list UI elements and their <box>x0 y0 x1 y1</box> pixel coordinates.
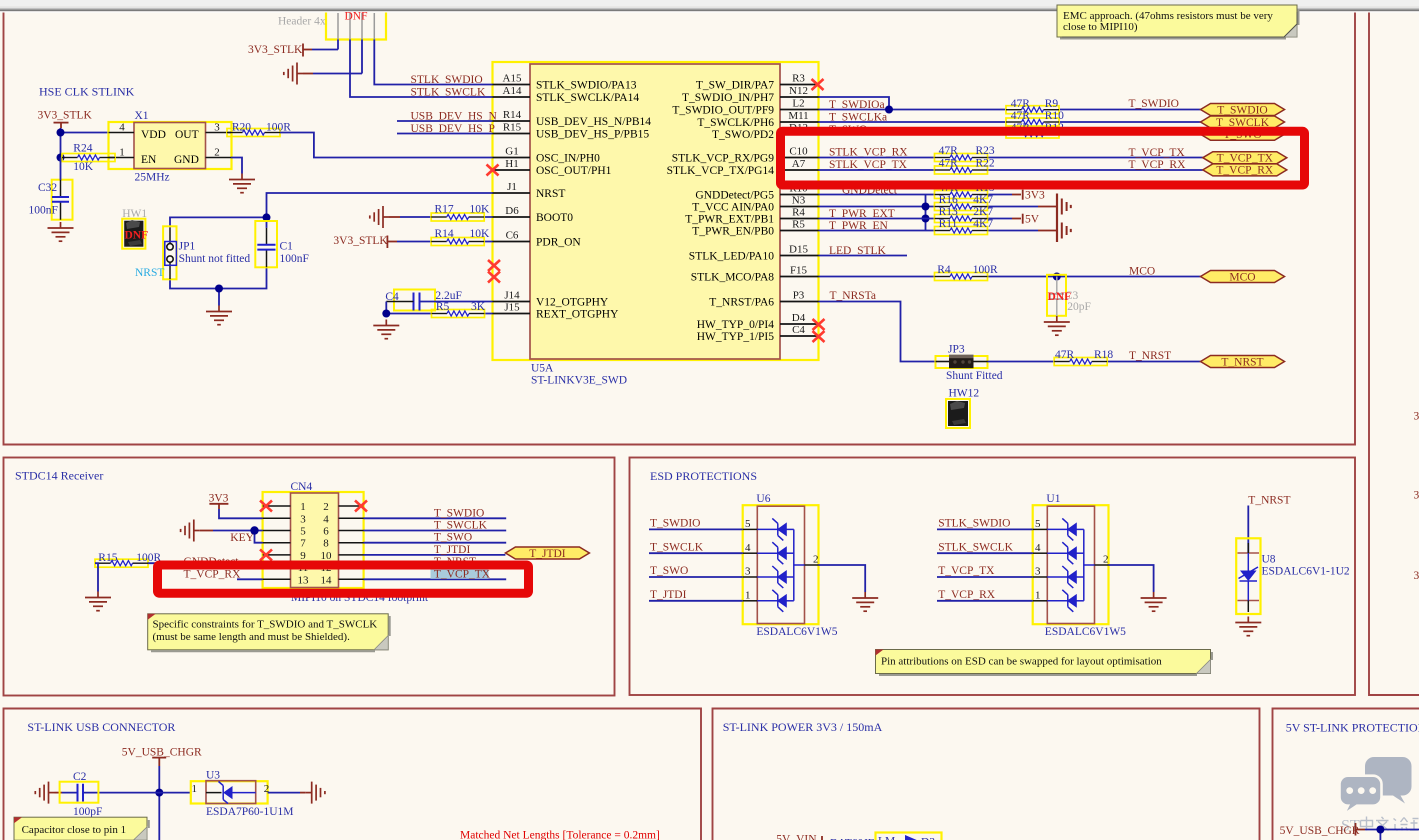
svg-text:R9: R9 <box>1045 98 1059 110</box>
wire T_VCC AIN (N3 to R16) <box>819 206 1039 208</box>
no-connect X CN4 pin9 <box>260 549 272 560</box>
pin D4 <box>780 323 819 325</box>
port T_NRST <box>1201 356 1285 369</box>
svg-text:F15: F15 <box>790 265 808 277</box>
junction (KEY) <box>250 526 258 534</box>
pin 1 (U6) <box>743 600 758 602</box>
svg-text:ESDA7P60-1U1M: ESDA7P60-1U1M <box>206 806 294 818</box>
svg-text:KEY: KEY <box>230 532 254 544</box>
wire T_VCP_TX (CN4 pin14) <box>364 578 507 580</box>
svg-text:T_SWDIO_OUT/PF9: T_SWDIO_OUT/PF9 <box>672 105 774 117</box>
wire T_JTDI (U6) <box>649 600 743 602</box>
svg-text:3: 3 <box>1414 411 1419 423</box>
svg-text:D6: D6 <box>505 205 519 217</box>
svg-text:3: 3 <box>300 513 306 525</box>
pin N3 <box>780 206 819 208</box>
svg-text:T_VCP_RX: T_VCP_RX <box>184 569 242 581</box>
port T_VCP_TX <box>1203 152 1287 165</box>
diode U3 ESDA7P60-1U1M <box>191 781 268 804</box>
ground (C3) <box>1044 316 1070 335</box>
svg-text:Capacitor close to pin 1: Capacitor close to pin 1 <box>22 824 126 836</box>
svg-text:R13: R13 <box>939 206 958 218</box>
svg-text:T_VCP_TX: T_VCP_TX <box>1217 153 1274 165</box>
svg-text:R3: R3 <box>792 73 805 85</box>
pin 13 (CN4) <box>263 578 291 580</box>
svg-text:STLK_SWDIO: STLK_SWDIO <box>938 518 1010 530</box>
wire gnd to header pin3 <box>303 73 313 75</box>
svg-text:R4: R4 <box>792 207 805 219</box>
pin 4 (CN4) <box>339 517 364 519</box>
ground (NRST) <box>206 306 232 325</box>
svg-text:NRST: NRST <box>135 267 164 279</box>
pin 14 (CN4) <box>339 578 364 580</box>
power port 3V3 (GNDDetect) <box>1023 190 1045 202</box>
pin R15 <box>493 133 531 135</box>
junction (3V3_STLK / VDD) <box>57 129 65 137</box>
svg-text:R5: R5 <box>792 219 805 231</box>
no-connect X CN4 pin1 <box>260 501 272 512</box>
svg-text:2K7: 2K7 <box>973 206 993 218</box>
svg-text:Shunt Fitted: Shunt Fitted <box>946 370 1003 382</box>
svg-text:STLK_VCP_RX/PG9: STLK_VCP_RX/PG9 <box>672 153 774 165</box>
pin 5 (U1) <box>1033 528 1048 530</box>
resistor R5 3K <box>432 301 486 317</box>
svg-text:JP1: JP1 <box>179 241 196 253</box>
svg-text:T_NRST: T_NRST <box>1129 350 1171 362</box>
jumper JP1 <box>163 226 250 279</box>
section border: main top sheet <box>4 13 1356 445</box>
junction (NRST bottom) <box>215 285 223 293</box>
resistor R23 47R <box>935 145 995 162</box>
wire NRST net (J1 to JP1/C1) <box>170 193 493 306</box>
svg-text:13: 13 <box>298 574 310 586</box>
svg-text:T_JTDI: T_JTDI <box>650 589 687 601</box>
svg-text:3: 3 <box>1035 566 1041 578</box>
wire T_SWDIOa (N12/L2 join to R9) <box>819 97 1201 110</box>
watermark forum logo <box>1340 757 1419 835</box>
svg-text:STLK_SWCLK: STLK_SWCLK <box>938 541 1013 553</box>
no-connect X on pin R3 <box>812 79 824 90</box>
svg-text:Specific constraints for T_SWD: Specific constraints for T_SWDIO and T_S… <box>153 618 378 630</box>
svg-text:U3: U3 <box>206 770 220 782</box>
wire U6 pin2 to ground <box>819 565 866 592</box>
svg-text:9: 9 <box>300 550 306 562</box>
pin 4 (U1) <box>1033 552 1048 554</box>
svg-text:GNDDetect/PG5: GNDDetect/PG5 <box>695 190 774 202</box>
svg-text:P3: P3 <box>793 290 805 302</box>
svg-text:CN4: CN4 <box>291 481 313 493</box>
svg-text:USB_DEV_HS_N/PB14: USB_DEV_HS_N/PB14 <box>536 116 651 128</box>
pin R5 <box>780 230 819 232</box>
wire T_NRST (JP3 to R18 to port) <box>988 361 1201 363</box>
pin M11 <box>780 121 819 123</box>
oscillator X1 25MHz <box>109 122 232 169</box>
svg-text:T_VCP_TX: T_VCP_TX <box>1129 147 1186 159</box>
junction (5V_USB_CHGR) <box>155 789 163 797</box>
svg-text:3K: 3K <box>471 301 486 313</box>
svg-text:4K7: 4K7 <box>973 194 993 206</box>
capacitor C4 2.2uF <box>385 290 462 311</box>
wire U1 pin2 to ground <box>1109 565 1154 592</box>
svg-text:STDC14 Receiver: STDC14 Receiver <box>15 469 103 483</box>
TVS diode U1-d <box>1047 590 1084 612</box>
pin 10 (CN4) <box>339 554 364 556</box>
svg-text:3: 3 <box>214 122 220 134</box>
svg-text:OUT: OUT <box>175 129 199 141</box>
svg-text:2: 2 <box>323 501 329 513</box>
pin 12 (CN4) <box>339 566 364 568</box>
pin 6 (CN4) <box>339 530 364 532</box>
svg-text:T_SWDIO: T_SWDIO <box>434 507 484 519</box>
wire USB_DEV_HS_P <box>397 133 493 135</box>
svg-text:T_SWCLK/PH6: T_SWCLK/PH6 <box>697 117 774 129</box>
pin A15 <box>493 84 531 86</box>
TVS diode U1-a <box>1047 518 1084 540</box>
svg-text:T_SWCLK: T_SWCLK <box>650 541 704 553</box>
resistor R11 4K7 <box>935 218 994 235</box>
ground (BOOT0) <box>370 206 389 228</box>
svg-text:HW1: HW1 <box>122 208 147 220</box>
svg-text:T_SWDIO: T_SWDIO <box>1129 98 1179 110</box>
ground (C4/R5) <box>373 320 399 339</box>
svg-text:4: 4 <box>323 513 329 525</box>
wire T_SWOa (D12 to R12) <box>819 133 1201 135</box>
svg-text:U1: U1 <box>1046 493 1060 505</box>
note Specific constraints <box>148 614 390 652</box>
no-connect X CN4 pin2 <box>355 501 367 512</box>
wire GNDDetect (R10 pin to R15 res) <box>819 194 1013 196</box>
resistor R16 4K7 <box>935 194 994 211</box>
svg-text:T_VCC AIN/PA0: T_VCC AIN/PA0 <box>692 202 774 214</box>
svg-text:T_SWDIO_IN/PH7: T_SWDIO_IN/PH7 <box>682 92 774 104</box>
svg-text:5V_USB_CHGR: 5V_USB_CHGR <box>1280 825 1360 837</box>
svg-text:T_PWR_EN/PB0: T_PWR_EN/PB0 <box>692 226 774 238</box>
svg-text:N12: N12 <box>789 85 808 97</box>
svg-text:ESDALC6V1W5: ESDALC6V1W5 <box>756 626 837 638</box>
highlight red box 1 (T_VCP swap) <box>781 131 1305 185</box>
wire T_NRSTa (P3 to JP3) <box>819 302 936 362</box>
junction (5V_USB_CHGR protection) <box>1376 826 1384 834</box>
svg-text:R22: R22 <box>976 157 995 169</box>
wire T_SWO (U6) <box>649 576 743 578</box>
wire T_SWCLK (CN4 pin6) <box>364 530 507 532</box>
svg-text:R23: R23 <box>976 145 995 157</box>
pin 2 (U1) <box>1095 564 1109 566</box>
TVS diode U6-b <box>757 542 794 564</box>
pin D6 <box>493 216 531 218</box>
svg-text:T_VCP_TX: T_VCP_TX <box>434 568 491 580</box>
power port 5V_VIN (partial) <box>776 834 822 840</box>
svg-text:1: 1 <box>1035 589 1041 601</box>
svg-text:47R: 47R <box>1055 349 1075 361</box>
svg-text:R24: R24 <box>73 142 92 154</box>
connector CN4 <box>263 492 364 588</box>
no-connect X on pin D4 <box>813 319 825 330</box>
svg-text:NRST: NRST <box>536 188 565 200</box>
svg-text:1: 1 <box>119 147 125 159</box>
svg-text:47R: 47R <box>939 145 959 157</box>
junction (N3 row) <box>922 203 930 211</box>
svg-text:N3: N3 <box>792 195 806 207</box>
svg-text:U8: U8 <box>1262 553 1276 565</box>
wire C2 row <box>55 792 63 794</box>
net label T_VCP_TX selected (CN4) <box>431 566 491 581</box>
diode U8 ESDALC6V1-1U2 <box>1236 538 1260 614</box>
svg-text:T_SW_DIR/PA7: T_SW_DIR/PA7 <box>696 80 774 92</box>
svg-text:5: 5 <box>1035 518 1041 530</box>
pin 3 (CN4) <box>263 517 291 519</box>
svg-text:ST-LINK USB CONNECTOR: ST-LINK USB CONNECTOR <box>27 720 175 734</box>
svg-text:3: 3 <box>1414 490 1419 502</box>
power port 3V3 (CN4) <box>209 493 229 509</box>
wire 5V_USB_CHGR (protection) <box>1365 830 1419 840</box>
capacitor C32 100nF <box>29 158 73 220</box>
svg-text:R15: R15 <box>98 552 117 564</box>
ground (U8) <box>1235 617 1261 636</box>
svg-text:T_VCP_TX: T_VCP_TX <box>938 565 995 577</box>
svg-text:3: 3 <box>745 566 751 578</box>
wire T_SWDIO (CN4 pin4) <box>364 517 507 519</box>
ground (C2 left) <box>35 782 54 804</box>
svg-text:T_SWDIO: T_SWDIO <box>1217 104 1267 116</box>
resistor R4 100R (MCO) <box>935 264 998 281</box>
resistor R22 47R <box>935 157 995 174</box>
pin 5 (U6) <box>743 528 758 530</box>
svg-text:J14: J14 <box>504 290 520 302</box>
svg-text:MCO: MCO <box>1229 272 1255 284</box>
svg-text:OSC_IN/PH0: OSC_IN/PH0 <box>536 153 600 165</box>
svg-text:OSC_OUT/PH1: OSC_OUT/PH1 <box>536 165 612 177</box>
svg-text:J1: J1 <box>507 181 517 193</box>
svg-text:R5: R5 <box>436 301 450 313</box>
pin L2 <box>780 109 819 111</box>
resistor R14 10K <box>431 228 490 246</box>
svg-text:14: 14 <box>321 574 333 586</box>
svg-text:A14: A14 <box>503 85 522 97</box>
svg-text:T_SWO: T_SWO <box>650 565 688 577</box>
pin N12 <box>780 96 819 98</box>
wire STLK_SWCLK (U1) <box>937 552 1033 554</box>
svg-text:4: 4 <box>1035 542 1041 554</box>
svg-text:C6: C6 <box>506 230 519 242</box>
resistor R15 47R (GNDDetect) <box>935 182 995 199</box>
resistor R24 10K <box>62 142 115 173</box>
no-connect X left row a <box>488 260 500 271</box>
resistor R20 100R <box>227 122 291 137</box>
svg-text:T_SWDIO: T_SWDIO <box>650 518 700 530</box>
svg-text:DNF: DNF <box>125 230 149 242</box>
ground (R15) <box>85 592 111 611</box>
svg-text:Header 4x: Header 4x <box>278 16 326 28</box>
pin G1 <box>493 157 531 159</box>
svg-text:PDR_ON: PDR_ON <box>536 237 581 249</box>
resistor R10 47R <box>1006 110 1064 126</box>
wire T_VCP_RX (U1) <box>937 600 1033 602</box>
resistor R18 47R <box>1054 349 1113 366</box>
svg-text:T_NRST/PA6: T_NRST/PA6 <box>709 297 774 309</box>
svg-text:BOOT0: BOOT0 <box>536 212 573 224</box>
wire resistor commoning vertical <box>925 195 927 231</box>
svg-text:J15: J15 <box>504 302 520 314</box>
pin 1 (U1) <box>1033 600 1048 602</box>
diode array U6 ESDALC6V1W5 <box>743 505 819 624</box>
svg-text:T_VCP_RX: T_VCP_RX <box>1129 159 1187 171</box>
svg-text:T_NRST: T_NRST <box>1221 357 1263 369</box>
svg-text:V12_OTGPHY: V12_OTGPHY <box>536 297 609 309</box>
port T_SWCLK <box>1201 116 1285 129</box>
capacitor C2 100pF <box>60 771 103 818</box>
pin D15 <box>780 255 819 257</box>
TVS diode U6-c <box>757 566 794 588</box>
svg-text:X1: X1 <box>135 110 149 122</box>
TVS diode U6-a <box>757 518 794 540</box>
ground (CN4 GND/KEY) <box>181 520 200 542</box>
svg-text:R10: R10 <box>1045 110 1064 122</box>
wire T_SWCLKa (M11 to R10) <box>819 121 1201 123</box>
svg-text:ESD PROTECTIONS: ESD PROTECTIONS <box>650 469 757 483</box>
ground (X1) <box>229 174 255 193</box>
ground (U3 right) <box>306 782 325 804</box>
svg-text:5: 5 <box>745 518 751 530</box>
wire STLK_SWDIO <box>374 40 492 85</box>
pin R4 <box>780 218 819 220</box>
pin 1 (CN4) <box>263 505 291 507</box>
pin A7 <box>780 169 819 171</box>
capacitor C1 100nF <box>255 221 309 267</box>
wire C4 to V12_OTGPHY <box>386 301 413 303</box>
svg-text:DNF: DNF <box>1048 291 1072 303</box>
resistor R9 47R <box>1006 98 1059 114</box>
pin 9 (CN4) <box>263 554 291 556</box>
svg-text:R20: R20 <box>232 122 251 134</box>
svg-text:C4: C4 <box>792 324 805 336</box>
port T_JTDI <box>505 547 589 560</box>
svg-text:100R: 100R <box>973 264 998 276</box>
svg-text:STLK_VCP_TX/PG14: STLK_VCP_TX/PG14 <box>667 165 775 177</box>
svg-text:L2: L2 <box>792 98 804 110</box>
resistor R12 47R <box>1006 122 1064 138</box>
port MCO <box>1201 271 1285 284</box>
wire T_VCP_TX (U1) <box>937 576 1033 578</box>
svg-text:(must be same length and must: (must be same length and must be Shielde… <box>153 631 351 643</box>
wire T_SWO (CN4 pin8) <box>364 542 507 544</box>
svg-text:4: 4 <box>119 122 125 134</box>
svg-text:T_NRSTa: T_NRSTa <box>830 290 876 302</box>
wire PDR_ON <box>397 241 493 243</box>
pin J14 <box>493 301 531 303</box>
pin R3 <box>780 84 819 86</box>
svg-text:T_VCP_RX: T_VCP_RX <box>938 589 996 601</box>
svg-text:R17: R17 <box>435 203 454 215</box>
pin J1 <box>493 192 531 194</box>
port T_SWO <box>1201 128 1285 141</box>
pin H1 <box>493 169 531 171</box>
svg-text:1: 1 <box>745 589 751 601</box>
pin D12 <box>780 133 819 135</box>
svg-text:R18: R18 <box>1094 349 1113 361</box>
junction (C4/R5) <box>382 310 390 318</box>
svg-text:MCO: MCO <box>1129 266 1155 278</box>
wire T_VCP_RX to CN4 pin13 <box>237 578 263 580</box>
svg-text:GND: GND <box>174 154 199 166</box>
TVS diode U1-c <box>1047 566 1084 588</box>
svg-text:5: 5 <box>300 526 306 538</box>
pin C10 <box>780 157 819 159</box>
svg-text:ESDALC6V1-1U2: ESDALC6V1-1U2 <box>1262 566 1350 578</box>
svg-text:USB_DEV_HS_P/PB15: USB_DEV_HS_P/PB15 <box>536 129 649 141</box>
wire OUT to OSC_IN <box>280 133 493 158</box>
wire USB_DEV_HS_N <box>397 120 493 122</box>
svg-text:H1: H1 <box>505 158 518 170</box>
note Capacitor close to pin 1 <box>14 817 149 840</box>
wire LED_STLK <box>819 255 908 257</box>
TVS diode U6-d <box>757 590 794 612</box>
pin R14 <box>493 120 531 122</box>
svg-text:1: 1 <box>192 783 198 795</box>
svg-text:47R: 47R <box>1011 110 1030 122</box>
wire T_PWR_EXT (R4 to R13) <box>819 218 1013 220</box>
svg-text:U5A: U5A <box>531 363 554 375</box>
svg-text:ST-LINKV3E_SWD: ST-LINKV3E_SWD <box>531 375 627 387</box>
wire X1 GND <box>231 158 242 174</box>
pin C6 <box>493 241 531 243</box>
svg-text:C10: C10 <box>789 146 808 158</box>
svg-text:10: 10 <box>321 550 333 562</box>
svg-text:T_JTDI: T_JTDI <box>434 544 471 556</box>
no-connect X on pin H1 <box>487 165 499 176</box>
svg-text:Shunt not fitted: Shunt not fitted <box>179 253 251 265</box>
section border: ST-LINK POWER <box>713 709 1260 840</box>
wire 3V3_STLK to header pin1 <box>312 40 338 50</box>
wire T_SWCLK (U6) <box>649 552 743 554</box>
svg-text:Pin attributions on ESD can be: Pin attributions on ESD can be swapped f… <box>881 656 1162 668</box>
svg-text:DNF: DNF <box>345 11 368 23</box>
wire 3V3_STLK rail to X1 VDD <box>61 128 109 158</box>
svg-text:R14: R14 <box>435 228 454 240</box>
svg-text:5V_USB_CHGR: 5V_USB_CHGR <box>122 746 202 758</box>
note EMC approach <box>1057 5 1299 39</box>
wire STLK_VCP_RX (C10 to R23 to port) <box>819 157 1203 159</box>
wire BOOT0 <box>389 216 400 218</box>
svg-text:STLK_LED/PA10: STLK_LED/PA10 <box>689 251 774 263</box>
wire U1 common bus <box>1084 529 1095 600</box>
power port 3V3_STLK (oscillator) <box>38 110 93 128</box>
svg-text:T_NRST: T_NRST <box>1248 494 1290 506</box>
svg-text:5V_VIN: 5V_VIN <box>776 834 817 840</box>
svg-text:close to MIPI10): close to MIPI10) <box>1063 21 1138 33</box>
ground (U6) <box>852 592 878 611</box>
svg-text:8: 8 <box>323 538 329 550</box>
pin 2 (U6) <box>805 564 819 566</box>
svg-text:100nF: 100nF <box>29 205 58 217</box>
svg-text:10K: 10K <box>470 228 491 240</box>
pin 5 (CN4) <box>263 530 291 532</box>
svg-text:D15: D15 <box>789 244 808 256</box>
svg-text:LM: LM <box>878 836 895 840</box>
pin 2 (CN4) <box>339 505 364 507</box>
svg-text:3V3_STLK: 3V3_STLK <box>333 235 388 247</box>
ground (C32) <box>48 222 74 241</box>
pin C4 <box>780 335 819 337</box>
svg-text:D4: D4 <box>792 312 806 324</box>
op-amp U5A ST-LINKV3E_SWD main MCU block <box>493 62 819 360</box>
power port 3V3_STLK (header) <box>248 44 312 57</box>
svg-text:VDD: VDD <box>141 129 166 141</box>
svg-text:5V: 5V <box>1025 214 1040 226</box>
svg-text:3V3_STLK: 3V3_STLK <box>38 110 93 122</box>
svg-text:ST-LINK POWER 3V3 / 150mA: ST-LINK POWER 3V3 / 150mA <box>723 720 883 734</box>
svg-text:T_VCP_RX: T_VCP_RX <box>1216 165 1274 177</box>
